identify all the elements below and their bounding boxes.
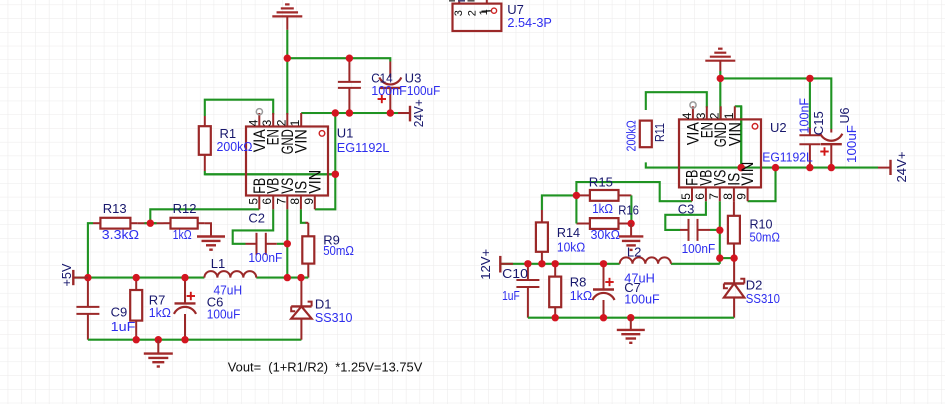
wire rail L1-right segment [256, 277, 308, 279]
svg-text:2: 2 [708, 112, 722, 119]
wire rail L2 right segment [671, 263, 720, 265]
junction pin1-rail dot redraw [738, 164, 745, 171]
wire R7 top lead [135, 278, 137, 290]
svg-text:VIN: VIN [306, 170, 324, 194]
junction rail C6 [181, 274, 188, 281]
junction R1-VIN riser [332, 171, 339, 178]
svg-text:8: 8 [288, 198, 302, 205]
junction pin1-rail [738, 164, 745, 171]
diode D1 SS310 [291, 302, 311, 319]
wire U2 pin6 VB to C3 [665, 201, 706, 230]
svg-text:6: 6 [693, 193, 707, 200]
svg-text:3: 3 [453, 10, 465, 16]
svg-text:L1: L1 [211, 256, 225, 271]
svg-text:3.3kΩ: 3.3kΩ [102, 227, 140, 242]
label D2 [746, 278, 780, 306]
svg-text:C3: C3 [678, 202, 695, 217]
wire R8 top lead [554, 264, 556, 277]
U2 pin numbers [679, 112, 749, 200]
wire +5V rail [73, 277, 204, 279]
svg-text:1kΩ: 1kΩ [149, 305, 171, 320]
resistor R9 [302, 236, 314, 263]
junction rail R14 [538, 260, 545, 267]
svg-text:100uF: 100uF [624, 292, 659, 307]
junction right gnd [717, 75, 724, 82]
svg-text:L2: L2 [627, 245, 641, 260]
junction C14 bottom [346, 109, 353, 116]
wire R16 right lead [619, 223, 632, 225]
wire R1 top to U1 pin3 EN [205, 100, 273, 116]
svg-text:100uF: 100uF [844, 125, 859, 163]
svg-text:12V+: 12V+ [478, 249, 493, 280]
svg-text:100nF: 100nF [797, 98, 812, 134]
svg-text:10kΩ: 10kΩ [557, 240, 586, 255]
label U3 [405, 71, 441, 99]
junction bottom R8 [552, 314, 559, 321]
label C9 [111, 305, 136, 334]
wire R7 bottom lead [135, 321, 137, 340]
svg-text:7: 7 [274, 198, 288, 205]
wire C3 to VS line [710, 229, 720, 231]
wire C9 bottom lead [87, 314, 89, 340]
label C7 [624, 280, 659, 307]
wire C6 bottom lead [184, 314, 186, 340]
resistor R15 [590, 190, 619, 201]
svg-text:8: 8 [721, 193, 735, 200]
svg-text:1uF: 1uF [502, 288, 520, 303]
svg-text:U1: U1 [337, 126, 354, 141]
ground stem top-left [286, 16, 288, 29]
wire D1 bottom lead [300, 319, 302, 340]
label R14 [557, 225, 586, 255]
wire U1 pin6 VB to C2 [233, 209, 274, 244]
wire gnd rail bottom left [88, 339, 302, 341]
junction R16 gnd [627, 220, 634, 227]
wire U1 pin7 VS down to rail [286, 209, 288, 277]
svg-text:Vout= (1+R1/R2) *1.25V=13.75: Vout= (1+R1/R2) *1.25V=13.75V [228, 360, 423, 375]
wire U2 pin8 to R10 [733, 201, 735, 216]
resistor R14 [536, 222, 548, 251]
svg-text:2.54-3P: 2.54-3P [507, 15, 552, 30]
resistor R16 [590, 218, 619, 229]
wire C15 upper [809, 78, 811, 128]
diode D2 SS310 [724, 279, 744, 298]
label C10 [502, 266, 528, 303]
svg-text:100uF: 100uF [407, 83, 440, 98]
ground top-left (flipped) [272, 4, 302, 16]
label R9 [323, 233, 354, 259]
wire U1 pin8 IS to R9 [301, 209, 308, 236]
wire C2 right to VS [277, 243, 288, 245]
label C14 [371, 71, 407, 99]
wire overlay R1-net through U1 [205, 173, 335, 175]
wire C6 top lead [184, 278, 186, 304]
wire U2 pin1 drop [735, 106, 741, 167]
junction bottom gnd right [627, 314, 634, 321]
net flag +5V [59, 263, 88, 286]
label U2 [762, 120, 813, 165]
svg-text:R15: R15 [589, 175, 613, 190]
wire R10 bottom lead [733, 244, 735, 259]
wire top branch to C14/U3 [287, 58, 390, 61]
label R15 [589, 175, 613, 217]
svg-text:C10: C10 [502, 266, 528, 281]
inductor L1 [204, 271, 256, 277]
wire R1 bottom to VIN riser [205, 171, 335, 174]
label C2 [248, 211, 282, 266]
wire U2 pin2 GND up [719, 78, 721, 120]
label R16 [591, 203, 640, 243]
junction C14 top [346, 55, 353, 62]
junction rail C7 [600, 260, 607, 267]
wire R16 left tie [575, 195, 577, 223]
svg-text:100nF: 100nF [682, 241, 716, 256]
junction rail R13 [84, 274, 91, 281]
svg-text:7: 7 [707, 193, 721, 200]
svg-text:6: 6 [260, 198, 274, 205]
ground bottom-left [144, 340, 173, 367]
svg-text:VIN: VIN [739, 162, 757, 186]
wire R9 bottom lead [307, 264, 309, 278]
wire D2 bottom lead [733, 298, 735, 318]
junction node top-left gnd [284, 55, 291, 62]
svg-text:200kΩ: 200kΩ [217, 139, 253, 154]
capacitor C10 [516, 280, 539, 287]
ground stem top-right [719, 61, 721, 71]
label R10 [750, 217, 781, 245]
junction C15 top [806, 75, 813, 82]
svg-text:9: 9 [302, 198, 316, 205]
junction C15 bottom [806, 164, 813, 171]
junction rail D1 [297, 274, 304, 281]
label R8 [570, 275, 593, 304]
wire C3 left lead [680, 229, 689, 231]
svg-text:VIN: VIN [293, 129, 311, 153]
svg-text:+5V: +5V [59, 263, 74, 286]
svg-text:1kΩ: 1kΩ [592, 201, 613, 216]
capacitor C2 [246, 233, 277, 255]
ground bottom-right [617, 318, 645, 343]
wire C9 top lead [87, 278, 89, 307]
svg-text:100uF: 100uF [207, 307, 241, 322]
junction bottom C7 [600, 314, 607, 321]
svg-text:R16: R16 [618, 203, 639, 218]
net flag 24V+ right [891, 152, 909, 183]
svg-text:C9: C9 [111, 305, 128, 320]
junction R1-riser dot redraw [332, 171, 339, 178]
svg-text:SS310: SS310 [315, 310, 353, 325]
label L1 [211, 256, 242, 298]
resistor R1 [199, 116, 211, 171]
net flag 12V+ [478, 249, 513, 280]
svg-text:1: 1 [722, 112, 736, 119]
svg-text:1: 1 [478, 9, 490, 15]
junction riser-rail [772, 164, 779, 171]
capacitor C7 (polarized) [593, 278, 615, 300]
junction rail R7 [133, 274, 140, 281]
op-amp/regulator U1 EG1192L [246, 109, 328, 210]
wire R16 left lead [576, 223, 590, 225]
svg-text:EG1192L: EG1192L [762, 150, 813, 165]
svg-text:3: 3 [260, 119, 274, 126]
junction bottom C6 [181, 336, 188, 343]
svg-text:4: 4 [680, 112, 694, 119]
cut-off net labels above U7 [449, 0, 475, 2]
junction VIN riser top [332, 109, 339, 116]
svg-text:SS310: SS310 [746, 291, 780, 306]
label R7 [149, 293, 171, 321]
junction FB node [573, 192, 580, 199]
capacitor C3 [689, 219, 698, 241]
capacitor C9 [76, 307, 99, 314]
junction U3 bottom [387, 109, 394, 116]
wire U1 pin9 to VIN riser [315, 113, 336, 209]
svg-text:VIN: VIN [726, 122, 744, 146]
capacitor C14 [338, 82, 361, 88]
junction jog left [716, 254, 723, 261]
svg-text:2: 2 [467, 10, 479, 16]
label C3 [678, 202, 715, 256]
op-amp/regulator U2 EG1192L [679, 102, 761, 201]
svg-text:4: 4 [246, 119, 260, 126]
net flag 24V+ left [410, 99, 426, 127]
U2 pin names [684, 122, 758, 186]
wire U1 pin5 FB to R13/R12 node [150, 209, 259, 223]
wire U2 pin9 to riser [748, 168, 776, 202]
wire U2 pin7 VS down [719, 201, 721, 264]
junction bottom R7 [133, 336, 140, 343]
label C15 (vertical) [797, 98, 827, 135]
wire R15 right lead [619, 194, 632, 196]
wire R15 left lead [576, 194, 590, 196]
capacitor C15 [799, 135, 820, 144]
label D1 [315, 297, 353, 325]
svg-text:R13: R13 [103, 201, 127, 216]
junction C3-VS [716, 227, 723, 234]
wire U3 leads [389, 62, 391, 114]
junction rail C10 [524, 260, 531, 267]
label U1 [337, 126, 390, 155]
wire U2 pin5 FB loop [576, 182, 692, 201]
svg-text:100nF: 100nF [371, 83, 407, 98]
svg-text:1kΩ: 1kΩ [173, 227, 192, 242]
wire 24V+ rail left [301, 112, 410, 114]
svg-text:30kΩ: 30kΩ [591, 227, 621, 242]
junction bottom gnd [155, 336, 162, 343]
svg-text:C15: C15 [811, 111, 826, 135]
label L2 [624, 245, 655, 286]
label U6 (vertical) [837, 108, 859, 164]
wire R14 bottom lead [541, 252, 543, 264]
wire 12V rail [500, 263, 619, 265]
wire C15 leads [809, 128, 811, 168]
wire VS jog to R10/D2 [720, 257, 734, 259]
svg-text:U6: U6 [837, 108, 852, 124]
wire C7 top lead [603, 264, 605, 290]
wire C14 leads [348, 59, 350, 113]
label Vout formula [228, 360, 423, 375]
ground at R12 [197, 237, 225, 250]
ground at R16 [619, 224, 644, 250]
wire R11 top to U2 pin3 EN [646, 92, 707, 110]
wire top rail right [720, 78, 831, 129]
svg-text:200kΩ: 200kΩ [624, 120, 639, 152]
wire gnd stem right [719, 71, 721, 78]
U1 pin numbers [246, 119, 316, 204]
resistor R7 [130, 290, 142, 321]
label R12 [173, 201, 197, 242]
connector U7 2.54-3P [453, 0, 502, 31]
wire R8 bottom lead [554, 307, 556, 318]
wire R13-R12 segment [137, 222, 163, 224]
ground top-right (flipped) [705, 49, 735, 61]
U1 pin names [251, 129, 325, 194]
svg-text:R11: R11 [652, 123, 667, 142]
svg-text:5: 5 [246, 198, 260, 205]
svg-text:R14: R14 [557, 225, 580, 240]
wire gnd rail bottom right [528, 317, 734, 319]
svg-text:100nF: 100nF [248, 250, 282, 265]
capacitor U6 (polarized) [820, 134, 842, 156]
svg-text:50mΩ: 50mΩ [750, 230, 781, 245]
junction U6 bottom [828, 164, 835, 171]
junction rail R8 [552, 260, 559, 267]
label R13 [102, 201, 140, 242]
wire R13 left to +5V rail [88, 223, 93, 277]
junction jog right [730, 254, 737, 261]
capacitor U3 (polarized) [378, 77, 402, 103]
svg-text:5: 5 [679, 193, 693, 200]
label R1 [217, 126, 253, 154]
label U7 [507, 2, 552, 30]
label C6 [207, 295, 241, 322]
wire R14 top lead [541, 210, 543, 222]
resistor R10 [728, 216, 740, 244]
wire C3 right lead [698, 229, 711, 231]
svg-text:C2: C2 [248, 211, 265, 226]
svg-text:9: 9 [735, 193, 749, 200]
svg-text:50mΩ: 50mΩ [323, 243, 354, 258]
wire D2 top lead [733, 258, 735, 283]
wire C7 bottom lead [603, 300, 605, 318]
wire FB to R14 [542, 195, 577, 210]
svg-text:U2: U2 [770, 120, 787, 135]
svg-text:3: 3 [694, 112, 708, 119]
svg-text:EG1192L: EG1192L [337, 140, 390, 155]
svg-text:1: 1 [288, 119, 302, 126]
svg-text:24V+: 24V+ [411, 99, 426, 127]
svg-text:1uF: 1uF [111, 319, 136, 334]
svg-text:1kΩ: 1kΩ [570, 288, 593, 303]
junction R13-R12-FB [147, 220, 154, 227]
resistor R11 [640, 121, 652, 148]
wire D1 top lead [300, 278, 302, 307]
junction C2-VS [284, 240, 291, 247]
junction rail VS [284, 274, 291, 281]
wire R11 bottom to 24V rail [646, 162, 891, 167]
inductor L2 [620, 257, 671, 263]
resistor R13 [93, 218, 137, 229]
capacitor C6 (polarized) [174, 292, 196, 314]
resistor R8 [549, 277, 561, 308]
wire C10 bottom lead [527, 287, 529, 318]
wire C10 top lead [527, 264, 529, 280]
wire R12 right to ground [205, 223, 211, 236]
wire U6 leads [830, 129, 832, 168]
label R11 (vertical) [624, 120, 667, 152]
wire GND net left (top ground to U1 pin2) [286, 30, 288, 115]
wire overlay pin1 drop through U2 [740, 106, 742, 167]
wire R15-R16 right tie [630, 195, 632, 223]
resistor R12 [164, 218, 205, 229]
svg-text:R12: R12 [173, 201, 197, 216]
svg-text:24V+: 24V+ [894, 152, 909, 183]
svg-text:2: 2 [274, 119, 288, 126]
